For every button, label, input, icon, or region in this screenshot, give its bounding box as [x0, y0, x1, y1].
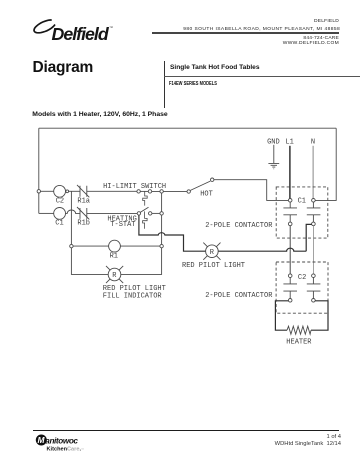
- thermostat S2 heating t-stat: [140, 207, 148, 228]
- svg-text:N: N: [311, 139, 315, 147]
- wire row1 contact R1a to hi-limit: [87, 190, 137, 192]
- svg-text:GND: GND: [267, 139, 280, 147]
- contactor C1 left pole: [283, 202, 297, 222]
- svg-text:HEATER: HEATER: [286, 339, 312, 347]
- wire row2 bus to coil C1: [39, 212, 54, 214]
- svg-text:KitchenCare.™: KitchenCare.™: [47, 447, 85, 453]
- wire row1 hi-limit to HOT switch: [152, 190, 187, 192]
- wire row1 coil C2 to contact R1a: [66, 190, 81, 192]
- header rule: [152, 32, 339, 34]
- wire left bus: [38, 128, 40, 213]
- Diagram heading: [33, 59, 94, 77]
- node junction R1 row left: [70, 244, 73, 247]
- wire loop to fill indicator row: [71, 248, 161, 275]
- wire row2 t-stat to junction: [152, 212, 160, 214]
- contactor C1 box: [276, 187, 328, 238]
- header right address block: [314, 20, 339, 25]
- wire heater right lead: [311, 301, 328, 330]
- svg-text:R1a: R1a: [77, 197, 90, 205]
- Manitowoc logo: [0, 0, 1, 1]
- wire right drop to N node: [315, 128, 336, 200]
- node junction row1 x161: [160, 190, 163, 193]
- svg-text:anitowoc: anitowoc: [45, 436, 78, 445]
- resistor heater element: [287, 326, 311, 334]
- coil C2: [54, 185, 66, 197]
- node junction R1 row right: [160, 244, 163, 247]
- wire HOT switch to contactor C1: [214, 180, 289, 201]
- svg-text:R1: R1: [110, 253, 118, 261]
- title block: [164, 61, 165, 108]
- wire row R1: [73, 245, 160, 247]
- wire heater left lead: [275, 301, 288, 330]
- Delfield logo: [0, 0, 125, 55]
- node junction row2 x161: [160, 212, 163, 215]
- svg-text:C2: C2: [56, 197, 64, 205]
- wire C1 left pole down to C2 box: [289, 226, 291, 274]
- contactor C1 right pole: [307, 202, 321, 222]
- svg-text:M: M: [38, 435, 46, 445]
- ground GND: [268, 145, 279, 169]
- svg-text:2-POLE CONTACTOR: 2-POLE CONTACTOR: [205, 292, 273, 300]
- supply L1: [289, 146, 291, 199]
- svg-text:FILL INDICATOR: FILL INDICATOR: [103, 292, 163, 300]
- svg-text:C1: C1: [55, 220, 63, 228]
- wire row1 bus to coil C2: [41, 190, 54, 192]
- wire row2 contact R1b to t-stat: [87, 212, 137, 214]
- switch HOT: [190, 181, 210, 190]
- contactor C2 right pole: [307, 278, 321, 299]
- svg-text:HI-LIMIT SWITCH: HI-LIMIT SWITCH: [103, 183, 166, 191]
- wire jog C1 right bottom to pilot feed: [306, 224, 311, 251]
- coil R1: [109, 240, 121, 252]
- svg-text:R1b: R1b: [77, 220, 90, 228]
- supply N: [312, 146, 314, 199]
- footer right text: [326, 435, 341, 441]
- node on left bus: [37, 190, 40, 193]
- wire vertical branch x71: [70, 191, 72, 244]
- contact R1a: [77, 185, 89, 197]
- lamp red pilot light: [203, 243, 220, 260]
- models line: [32, 111, 167, 118]
- hi-limit switch S1: [143, 191, 148, 205]
- svg-text:L1: L1: [285, 139, 293, 147]
- wire C1 right pole down to C2 box: [312, 226, 314, 274]
- svg-text:T-STAT: T-STAT: [110, 221, 135, 229]
- contactor C2 box: [276, 262, 328, 313]
- wire hi-limit closed blade: [140, 190, 148, 192]
- node right of coil C2: [66, 190, 69, 193]
- svg-text:2-POLE CONTACTOR: 2-POLE CONTACTOR: [205, 222, 273, 230]
- svg-text:C1: C1: [298, 198, 306, 206]
- contact R1b: [77, 207, 89, 219]
- footer rule: [33, 430, 339, 431]
- coil C1: [54, 208, 66, 220]
- wire vertical x161: [161, 193, 163, 244]
- svg-text:HOT: HOT: [200, 191, 213, 199]
- wire t-stat feed to red pilot light: [139, 215, 306, 251]
- wire row2 hop over x71 branch: [66, 210, 81, 213]
- lamp fill indicator: [106, 266, 123, 283]
- svg-text:C2: C2: [298, 274, 306, 282]
- svg-text:RED PILOT LIGHT: RED PILOT LIGHT: [182, 262, 245, 270]
- contactor C2 left pole: [283, 278, 297, 299]
- wire top rail: [39, 127, 336, 129]
